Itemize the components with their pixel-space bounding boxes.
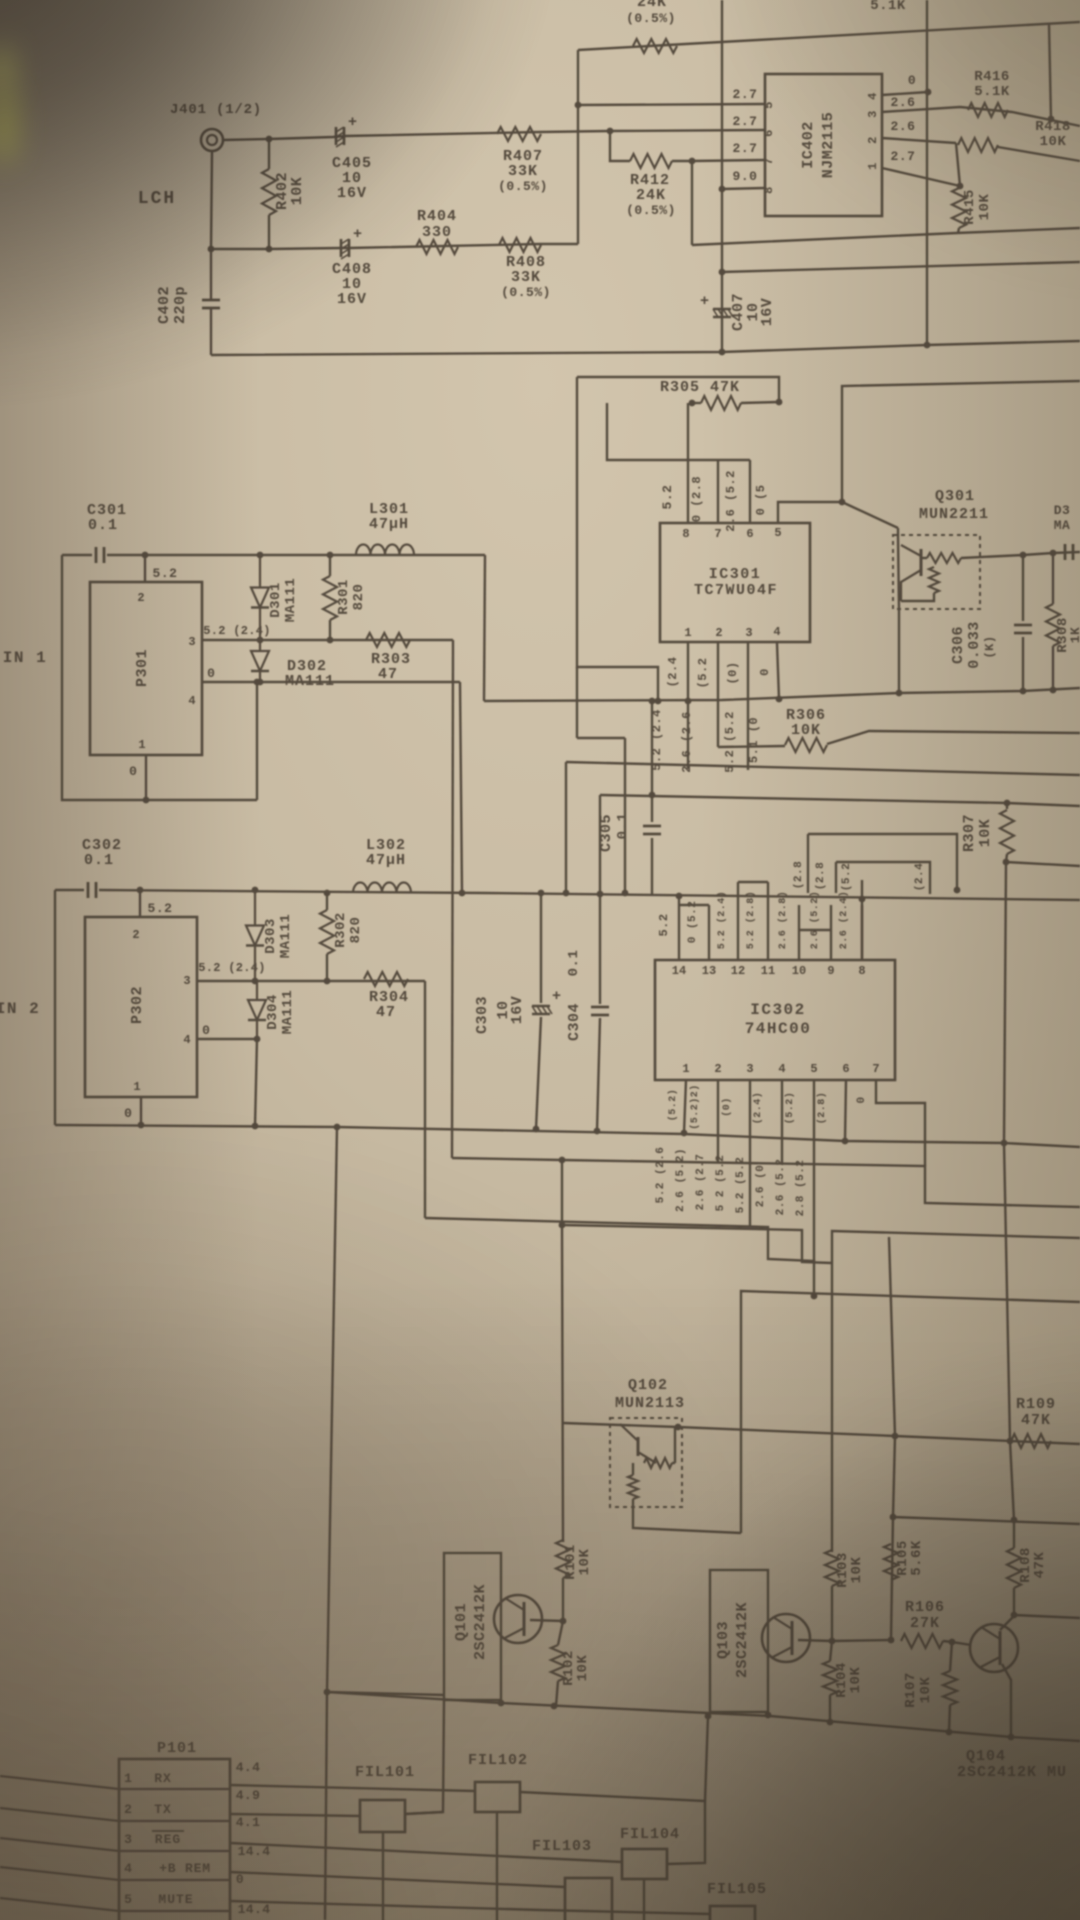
svg-text:2: 2 xyxy=(715,626,722,640)
wire IC402 pin6 xyxy=(722,188,765,189)
wire IC301 pin3 down xyxy=(747,643,749,770)
inductor L302 xyxy=(353,882,411,893)
svg-text:3: 3 xyxy=(746,1062,753,1076)
svg-text:1K: 1K xyxy=(1068,627,1080,644)
svg-text:(5.2): (5.2) xyxy=(667,1089,679,1122)
svg-text:5: 5 xyxy=(774,526,781,540)
wire staircase C xyxy=(425,1218,814,1295)
svg-text:47µH: 47µH xyxy=(366,852,406,869)
wire Q104 emitter xyxy=(1002,1664,1011,1737)
wire Q104 collector xyxy=(1000,1616,1014,1630)
P101 row separators xyxy=(119,1788,230,1790)
resistor R301 xyxy=(323,576,337,620)
resistor R411 xyxy=(633,39,677,53)
svg-text:MA111: MA111 xyxy=(285,673,335,690)
svg-text:D301: D301 xyxy=(268,582,284,618)
junction IC302 risers xyxy=(676,893,683,900)
junction on J401 wire xyxy=(266,136,273,143)
svg-text:6: 6 xyxy=(842,1062,849,1076)
junction H x658 xyxy=(655,698,662,705)
wire Q104 collector line out xyxy=(1014,1615,1080,1618)
wire IN1 top xyxy=(62,554,92,556)
resistor R306 xyxy=(785,738,827,752)
svg-text:24K: 24K xyxy=(637,0,667,11)
svg-text:MA: MA xyxy=(1054,518,1071,533)
wire R412 to line E xyxy=(691,161,693,245)
wire FIL101 out xyxy=(405,1812,443,1814)
transistor Q103 xyxy=(762,1614,810,1662)
svg-text:(5.2)2): (5.2)2) xyxy=(689,1084,701,1130)
junction wire down xyxy=(208,246,215,253)
wire x625 riser xyxy=(624,738,626,893)
svg-text:C303: C303 xyxy=(474,996,491,1034)
svg-text:2.6 (2.8): 2.6 (2.8) xyxy=(777,891,789,950)
vertical bus A xyxy=(721,0,723,352)
FIL105 box xyxy=(710,1906,755,1920)
transistor Q301 xyxy=(920,549,923,576)
wire vertical left of IC402 xyxy=(577,50,579,244)
wire IC402 pin1 xyxy=(882,168,960,186)
wire F2 long horizontal xyxy=(55,1125,1080,1147)
wire pin5 net riser to edge xyxy=(842,381,1080,502)
svg-text:(2.4: (2.4 xyxy=(914,863,926,891)
junction bus right dots xyxy=(765,1712,772,1719)
wire row3 to FIL104 xyxy=(230,1843,622,1862)
wire nested rect outer right xyxy=(808,834,957,890)
svg-text:(2.8: (2.8 xyxy=(793,861,805,889)
wire 1225 line xyxy=(562,1225,832,1263)
resistor R102 xyxy=(551,1645,565,1681)
junction R106 nodes xyxy=(888,1637,895,1644)
svg-text:2.6 (0: 2.6 (0 xyxy=(755,1165,767,1208)
IC301 box xyxy=(660,523,810,642)
svg-text:330: 330 xyxy=(422,224,452,241)
junction R307 bottom xyxy=(1003,859,1010,866)
resistor R309 xyxy=(1046,604,1060,646)
junction x327 branch xyxy=(324,1689,331,1696)
svg-text:4: 4 xyxy=(183,1033,190,1047)
svg-text:(K): (K) xyxy=(983,635,997,658)
resistor R105 xyxy=(884,1544,898,1580)
svg-text:5.2 (5.2: 5.2 (5.2 xyxy=(723,711,737,773)
svg-text:IN 2: IN 2 xyxy=(0,1000,40,1018)
resistor R404 xyxy=(416,240,458,254)
svg-text:0: 0 xyxy=(129,764,137,779)
svg-text:74HC00: 74HC00 xyxy=(745,1020,812,1038)
svg-text:0 (5: 0 (5 xyxy=(754,485,768,516)
wire R304 drop xyxy=(424,981,426,1218)
wire IC402 pin2 xyxy=(882,138,956,143)
resistor R108 xyxy=(1007,1548,1021,1588)
svg-text:Q301: Q301 xyxy=(935,488,975,505)
svg-text:(0.5%): (0.5%) xyxy=(626,11,676,26)
svg-text:13: 13 xyxy=(702,964,716,978)
wire N1 left side xyxy=(577,377,658,701)
resistor R103 xyxy=(825,1550,839,1586)
wire Q102 exit xyxy=(633,1507,741,1533)
wire R307 bottom line xyxy=(1006,862,1080,866)
svg-text:(5.2: (5.2 xyxy=(696,658,710,689)
wire IC301 pin2 down to R306 xyxy=(717,643,719,747)
svg-text:5.2: 5.2 xyxy=(657,913,671,936)
svg-text:1: 1 xyxy=(138,738,145,752)
capacitor C306 xyxy=(1022,555,1024,621)
resistor R302 xyxy=(320,910,334,954)
resistor R407 xyxy=(497,127,541,141)
svg-text:47µH: 47µH xyxy=(369,516,409,533)
svg-text:2.6 (5.2: 2.6 (5.2 xyxy=(724,470,738,532)
svg-text:820: 820 xyxy=(348,917,364,944)
junction R309 top xyxy=(1050,550,1057,557)
svg-text:R305 47K: R305 47K xyxy=(660,379,740,396)
wire P301 pin1 xyxy=(145,755,147,800)
svg-text:TC7WU04F: TC7WU04F xyxy=(694,582,778,599)
wire C305 riser xyxy=(651,701,653,822)
svg-text:5.1 (0: 5.1 (0 xyxy=(747,717,761,763)
wire IC301 pin6 riser xyxy=(749,460,751,523)
diode D303 xyxy=(254,890,256,926)
capacitor C407 xyxy=(713,308,731,311)
Q301 internal resistor v xyxy=(929,567,939,593)
wire IC402 pin7 xyxy=(610,131,630,161)
connector J401 xyxy=(201,129,223,151)
wire FIL104 bottom xyxy=(643,1879,645,1920)
svg-text:8: 8 xyxy=(858,964,865,978)
transistor Q101 xyxy=(494,1595,542,1643)
wire FIL102 out slant xyxy=(520,1792,705,1864)
svg-text:2: 2 xyxy=(137,591,144,605)
FIL101 box xyxy=(360,1800,405,1832)
resistor R412 xyxy=(630,154,672,168)
svg-text:10K: 10K xyxy=(977,819,994,848)
wire rect 1302 line xyxy=(741,1291,1080,1533)
wire P302 pin1 xyxy=(140,1097,142,1125)
svg-text:MUN2211: MUN2211 xyxy=(919,506,989,523)
wire R305 left extension xyxy=(607,403,750,460)
wire pin2 entry P302 xyxy=(139,890,141,917)
svg-text:2: 2 xyxy=(132,928,139,942)
svg-text:1: 1 xyxy=(684,626,691,640)
svg-text:+: + xyxy=(700,293,709,310)
resistor R305 xyxy=(701,396,741,410)
resistor R307 xyxy=(1000,810,1014,854)
wire R418 corner to R415 xyxy=(956,143,960,186)
svg-text:47: 47 xyxy=(376,1004,396,1021)
yellow-green streaks on left edge xyxy=(0,44,14,96)
svg-text:(0.5%): (0.5%) xyxy=(626,203,676,218)
FIL104 box xyxy=(622,1849,667,1879)
wire rect 1236 line xyxy=(832,1231,1080,1263)
wire line E xyxy=(692,228,1080,245)
IC402 box xyxy=(765,74,882,216)
P301 box xyxy=(90,582,202,755)
wire x327 vertical xyxy=(325,1127,337,1920)
wire nested rect outer left xyxy=(807,834,809,893)
junction Q101 base xyxy=(560,1618,567,1625)
wire D304 to F2 xyxy=(255,1039,257,1126)
junction x625 xyxy=(622,890,629,897)
junction C end xyxy=(811,1293,818,1300)
wire IC301 pin1 down xyxy=(687,643,689,701)
junction C305 top xyxy=(649,698,656,705)
resistor R303 xyxy=(366,633,410,647)
svg-text:820: 820 xyxy=(351,584,367,611)
resistor R106 xyxy=(901,1634,943,1648)
svg-text:0: 0 xyxy=(202,1023,210,1038)
svg-text:0.033: 0.033 xyxy=(966,621,983,669)
svg-text:2.6 (5.2): 2.6 (5.2) xyxy=(675,1148,687,1212)
svg-text:1: 1 xyxy=(682,1062,689,1076)
resistor R416 xyxy=(968,103,1008,117)
svg-text:P302: P302 xyxy=(129,986,146,1024)
wire pin0 line xyxy=(202,681,460,683)
FIL103 box xyxy=(565,1878,612,1920)
svg-text:33K: 33K xyxy=(508,163,538,180)
junction R108 top xyxy=(1011,1517,1018,1524)
wire IC402 pin5 xyxy=(578,104,765,105)
resistor R101 xyxy=(556,1540,570,1578)
wire IC402 pin7 from R412 xyxy=(692,160,765,161)
wire row4 to FIL103 xyxy=(230,1872,565,1887)
vertical bus B xyxy=(926,0,928,345)
inductor L301 xyxy=(356,544,414,555)
Q101 wire rectangle xyxy=(444,1553,501,1700)
IC302 bottom pin wires xyxy=(684,1080,686,1133)
svg-text:5.2 (5.2: 5.2 (5.2 xyxy=(735,1157,747,1214)
svg-text:5.2 (2.8): 5.2 (2.8) xyxy=(745,891,757,950)
wire row1 RX to FIL102 xyxy=(230,1785,475,1791)
wire left web vertical xyxy=(576,667,578,738)
svg-text:2.7: 2.7 xyxy=(733,141,758,156)
svg-text:11: 11 xyxy=(761,964,775,978)
junction R412 right xyxy=(689,158,696,165)
wire pin3 line xyxy=(202,639,453,641)
wire IN2 left side xyxy=(54,890,56,1125)
Q102 internal resistor v xyxy=(628,1475,638,1499)
svg-text:(2.8: (2.8 xyxy=(815,862,827,890)
Q301 dashed box xyxy=(893,535,980,609)
svg-text:(0.5%): (0.5%) xyxy=(498,179,548,194)
svg-text:16V: 16V xyxy=(337,291,367,308)
svg-text:(0.5%): (0.5%) xyxy=(501,285,551,300)
svg-text:(5.2): (5.2) xyxy=(784,1092,796,1125)
wire Q101 left drop xyxy=(405,1700,444,1814)
svg-text:0.1: 0.1 xyxy=(615,813,631,840)
wire row5 to FIL105 xyxy=(230,1901,710,1914)
svg-text:(2.4: (2.4 xyxy=(666,657,680,688)
svg-text:8: 8 xyxy=(682,527,689,541)
capacitor C302 xyxy=(87,882,90,898)
junction R305 right xyxy=(776,399,783,406)
junction B x562 xyxy=(559,1157,566,1164)
svg-text:9.0: 9.0 xyxy=(733,169,758,184)
wire line E2 from bus A xyxy=(722,262,1080,272)
wire R411 feedback line xyxy=(578,22,1080,50)
junction R109 branch xyxy=(892,1433,899,1440)
junction R402 bottom xyxy=(266,246,273,253)
IC302 top pin wires xyxy=(678,905,680,960)
svg-text:7: 7 xyxy=(714,527,721,541)
wire net down right xyxy=(1004,1143,1014,1520)
svg-text:MA111: MA111 xyxy=(280,990,296,1035)
wire FIL102 bottom xyxy=(496,1812,498,1920)
capacitor C304 chain xyxy=(599,795,601,894)
junction pin5 branch xyxy=(575,102,582,109)
wire nested rect inner xyxy=(836,862,930,894)
svg-text:7: 7 xyxy=(872,1062,879,1076)
junction bus points xyxy=(498,1700,505,1707)
wire Q103 base line xyxy=(798,1640,891,1641)
wire Q104 base xyxy=(952,1642,971,1645)
svg-text:3: 3 xyxy=(745,626,752,640)
wire pin0 drop xyxy=(460,682,462,893)
svg-text:R307: R307 xyxy=(961,814,978,852)
junction R415 top xyxy=(957,183,964,190)
junction H Q301 xyxy=(896,690,903,697)
svg-text:D304: D304 xyxy=(265,994,281,1030)
capacitor C405 xyxy=(335,127,338,145)
svg-text:2.6 (2.4): 2.6 (2.4) xyxy=(838,891,850,950)
svg-text:16V: 16V xyxy=(759,298,776,327)
junction C407 bottom xyxy=(719,349,726,356)
svg-text:12: 12 xyxy=(731,964,745,978)
capacitor C402 xyxy=(202,299,220,302)
Q103 wire rectangle xyxy=(710,1570,768,1712)
junction P302 pin2 xyxy=(137,887,144,894)
junction pin5 net xyxy=(839,499,846,506)
wire left web horizontal xyxy=(577,737,625,739)
P101 box xyxy=(119,1759,230,1920)
IC302 top pin wire caps xyxy=(679,904,709,906)
svg-text:MA111: MA111 xyxy=(283,578,299,623)
wire second row LCH xyxy=(211,244,578,249)
junction R307 top xyxy=(1004,800,1011,807)
svg-text:R301: R301 xyxy=(336,579,352,615)
svg-text:4: 4 xyxy=(773,625,780,639)
resistor R304 xyxy=(364,972,408,986)
wire IC402 pin3 xyxy=(882,107,1080,126)
svg-text:5.2: 5.2 xyxy=(148,901,173,916)
wire Q-line left drop xyxy=(565,762,567,893)
svg-text:+: + xyxy=(552,988,561,1005)
ground bus wire W3 xyxy=(211,341,1080,355)
junction right vertical on pin3 xyxy=(1048,116,1055,123)
wire IN1 left side xyxy=(62,555,257,800)
wire pin8 riser xyxy=(687,403,689,523)
svg-text:0.1: 0.1 xyxy=(84,852,114,869)
svg-text:(0): (0) xyxy=(721,1097,733,1117)
svg-text:6: 6 xyxy=(746,527,753,541)
svg-text:IN 1: IN 1 xyxy=(3,649,47,667)
transistor Q102 xyxy=(637,1437,640,1456)
svg-text:R302: R302 xyxy=(333,912,349,948)
junction C305 vertical crossing xyxy=(649,792,656,799)
wire pin4 line P302 xyxy=(197,1038,257,1040)
svg-text:5.2 (2.4: 5.2 (2.4 xyxy=(650,709,664,771)
wire pin5 diagonal to Q301 xyxy=(842,502,898,528)
wire x832 down to R103 xyxy=(831,1263,833,1552)
FIL102 box xyxy=(475,1782,520,1812)
capacitor C305 xyxy=(643,825,661,828)
svg-text:(0): (0) xyxy=(726,661,740,684)
svg-text:0 (5.2: 0 (5.2 xyxy=(687,901,699,944)
wire x893 vertical xyxy=(891,1436,895,1640)
svg-text:4: 4 xyxy=(188,694,195,708)
wire IN1 top right xyxy=(107,554,485,556)
wire Q301 collector line xyxy=(1023,552,1080,555)
junction C306 top xyxy=(1020,552,1027,559)
svg-text:2.8 (5.2: 2.8 (5.2 xyxy=(795,1160,807,1217)
Q102 dashed box xyxy=(610,1418,682,1507)
resistor R402 xyxy=(262,169,276,215)
IC302 box xyxy=(655,960,895,1080)
svg-text:2.6 (5.2: 2.6 (5.2 xyxy=(775,1159,787,1216)
diode D301 xyxy=(259,555,261,588)
wire network rect N1 top xyxy=(577,377,779,402)
svg-text:P301: P301 xyxy=(134,649,151,687)
diode D304 xyxy=(256,981,258,1000)
resistor R408 xyxy=(499,238,541,252)
svg-text:16V: 16V xyxy=(509,996,526,1025)
wire 1517 line xyxy=(893,1517,1080,1524)
svg-text:2.6 (5.2): 2.6 (5.2) xyxy=(809,891,821,950)
junction R305 left xyxy=(689,400,696,407)
wire L301 out drop to H xyxy=(484,555,485,701)
svg-text:4: 4 xyxy=(778,1062,785,1076)
svg-text:14: 14 xyxy=(672,964,686,978)
svg-text:5.2: 5.2 xyxy=(660,485,675,510)
wire x562 long vertical xyxy=(562,1160,563,1542)
diode D302 xyxy=(259,640,261,651)
wire pin3 line P302 xyxy=(197,980,425,982)
resistor R107 xyxy=(943,1671,957,1705)
wire staircase B xyxy=(452,1158,1080,1207)
capacitor C301 xyxy=(95,547,98,563)
svg-text:0.1: 0.1 xyxy=(88,517,118,534)
wire to Q101 xyxy=(327,1692,444,1695)
svg-text:0: 0 xyxy=(758,668,772,676)
Q102 internal resistor h xyxy=(644,1458,672,1468)
wire R-line xyxy=(600,795,1080,806)
wire IC402 pin4 xyxy=(882,92,928,95)
wire x889 feed from rect line xyxy=(889,1237,895,1436)
svg-text:2: 2 xyxy=(714,1062,721,1076)
svg-text:47: 47 xyxy=(378,666,398,683)
svg-text:IC302: IC302 xyxy=(750,1001,806,1019)
svg-text:0 (2.8: 0 (2.8 xyxy=(690,476,704,522)
wire pin1 below H xyxy=(687,701,689,769)
svg-text:10K: 10K xyxy=(791,722,821,739)
svg-text:33K: 33K xyxy=(511,269,541,286)
wire FIL101 bottom xyxy=(382,1832,384,1920)
svg-text:24K: 24K xyxy=(636,187,666,204)
wire x708 vertical to FIL104 xyxy=(705,1716,708,1801)
wire J401 to IC402 pin8 xyxy=(223,130,765,140)
wire IC301 pin4 down xyxy=(777,643,779,699)
junction bus B bottom xyxy=(924,342,931,349)
junction R108 bottom xyxy=(1011,1612,1018,1619)
resistor R415 xyxy=(952,188,966,228)
wire Q101 base xyxy=(530,1620,563,1621)
svg-text:10: 10 xyxy=(792,964,806,978)
svg-text:(2.4): (2.4) xyxy=(752,1092,764,1125)
wire IN2 line xyxy=(99,890,1080,900)
svg-text:0.1: 0.1 xyxy=(566,950,582,977)
svg-text:3: 3 xyxy=(188,635,195,649)
svg-text:(5.2: (5.2 xyxy=(841,863,853,891)
wire H main horizontal xyxy=(484,688,1080,701)
svg-text:9: 9 xyxy=(827,964,834,978)
